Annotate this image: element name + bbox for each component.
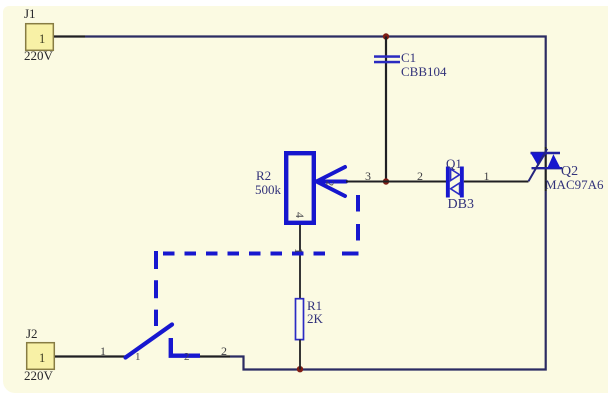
diac Q1 left bar xyxy=(446,167,450,198)
wire pot pin1 down to R1 (black) xyxy=(299,225,301,298)
node junction R1 / bottom rail xyxy=(297,366,303,372)
node junction C1 / wiper rail xyxy=(383,178,389,184)
triac Q2 right triangle xyxy=(547,154,560,168)
node junction top rail / C1 xyxy=(383,33,389,39)
potentiometer R2 wiper arrow xyxy=(317,167,347,196)
label J2 xyxy=(26,327,38,340)
label J1 xyxy=(24,7,36,20)
switch SW contact L xyxy=(171,338,200,356)
net label 2 (C1 to Q1 wire) xyxy=(417,170,423,182)
connector J1 box xyxy=(26,24,54,51)
dashed linkage vertical at switch xyxy=(154,251,158,326)
wire triac top pin (black stub) xyxy=(545,147,547,153)
wire top rail (navy) xyxy=(85,37,546,148)
label Q1 xyxy=(446,157,462,170)
dashed linkage vertical at pot wiper xyxy=(356,195,360,249)
label R2 xyxy=(256,169,271,182)
potentiometer R2 body xyxy=(286,153,314,223)
net label 1 (Q1 to gate wire) xyxy=(484,170,490,182)
wire switch contact to step (black) xyxy=(200,355,230,357)
diac Q1 right bar xyxy=(460,167,464,198)
pin number 1 inside J1 xyxy=(39,33,45,46)
label MAC97A6 xyxy=(545,178,604,191)
wire wiper to Q1 (black) xyxy=(346,181,446,183)
label J1 220V xyxy=(24,49,53,62)
net label 2 (switch wire) xyxy=(221,345,227,357)
wire J2 pin to switch (black) xyxy=(55,355,126,357)
capacitor C1 plates xyxy=(374,55,400,58)
pin number 2 pot wiper (rotated) xyxy=(323,180,334,186)
pin 1 of J1 (black stub) xyxy=(54,35,85,37)
connector J2 box xyxy=(27,343,55,370)
triac Q2 top bar xyxy=(531,152,561,154)
triac Q2 bottom bar xyxy=(532,167,563,169)
dashed linkage horizontal corner dash xyxy=(342,252,359,256)
pin number 1 pot (rotated) xyxy=(293,248,305,254)
switch SW lever xyxy=(126,325,173,358)
label 500k xyxy=(255,183,281,196)
triac Q2 gate diagonal xyxy=(529,149,548,181)
net label 1 (J2 wire) xyxy=(100,345,106,357)
label CBB104 xyxy=(401,65,447,78)
label DB3 xyxy=(448,198,474,212)
label 2K xyxy=(307,312,323,325)
pin number 2 switch right xyxy=(184,352,190,363)
resistor R1 body xyxy=(296,299,304,340)
diac Q1 upper triangle xyxy=(451,169,460,181)
dashed linkage horizontal xyxy=(163,252,330,256)
wire Q1 to triac gate (black) xyxy=(464,181,529,183)
wire C1 top pin xyxy=(385,37,387,182)
pin number 1 inside J2 xyxy=(39,352,45,365)
label Q2 xyxy=(561,165,578,179)
wire triac vertical (black stub through symbol) xyxy=(545,153,547,192)
pin number 4 pot (rotated) xyxy=(294,212,306,218)
diac Q1 lower triangle xyxy=(451,183,460,195)
label C1 xyxy=(401,51,416,64)
wire right rail (navy) xyxy=(230,191,546,370)
label J2 220V xyxy=(24,369,53,382)
wire R1 bottom pin (black) xyxy=(299,340,301,370)
pin number 1 switch left xyxy=(135,352,141,363)
label R1 xyxy=(307,299,322,312)
net label 3 (wiper wire) xyxy=(365,170,371,182)
triac Q2 left triangle xyxy=(531,153,547,166)
